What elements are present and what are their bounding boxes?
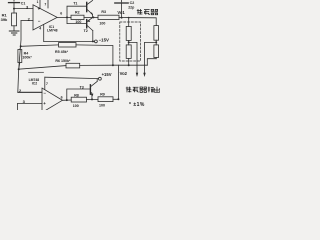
- wire Vo2 drop to output stage: [118, 65, 120, 99]
- node bridge left bottom: [128, 64, 130, 66]
- bridge arm right lower element: [154, 45, 159, 59]
- svg-text:100: 100: [75, 20, 81, 24]
- 输: [148, 87, 154, 93]
- svg-text:R9: R9: [100, 93, 105, 97]
- 感: [144, 10, 150, 15]
- pin 7 stub IC2: [44, 77, 46, 89]
- wire riser to T2 base: [67, 17, 86, 23]
- bridge arm left upper element: [126, 18, 131, 41]
- svg-text:T3: T3: [80, 86, 84, 90]
- wire pin2 IC2: [18, 91, 42, 93]
- 器: [140, 87, 147, 92]
- wire -15V rail: [44, 40, 95, 42]
- svg-text:R5 45k*: R5 45k*: [55, 50, 69, 54]
- svg-text:+15V: +15V: [102, 72, 112, 77]
- wire right arm bottom return: [147, 59, 156, 65]
- transistor T2: [87, 18, 93, 42]
- sensor output tap left: [129, 42, 137, 73]
- node X junction: [20, 45, 22, 47]
- svg-text:7: 7: [46, 82, 48, 86]
- arrow right output: [143, 73, 145, 77]
- capacitor C2: [115, 0, 128, 18]
- label sensor (CJK pseudo-glyphs): [137, 9, 158, 15]
- ground: [9, 31, 19, 35]
- svg-text:C1: C1: [21, 1, 26, 5]
- wire R5 right with drop: [76, 45, 113, 65]
- svg-text:7: 7: [44, 3, 46, 7]
- svg-text:−15V: −15V: [99, 38, 109, 43]
- bridge arm right upper element: [154, 26, 159, 41]
- wire pin3 IC1: [14, 8, 33, 10]
- svg-text:100: 100: [73, 104, 79, 108]
- wire node Y to R6: [19, 66, 66, 70]
- pin 7 stub IC1: [47, 0, 49, 8]
- svg-text:R8: R8: [74, 93, 79, 97]
- svg-text:100: 100: [99, 21, 105, 25]
- pin 1 stub IC1: [39, 0, 41, 8]
- 传: [137, 9, 143, 15]
- terminal -15V: [95, 40, 98, 43]
- label sensor output (CJK pseudo-glyphs): [126, 87, 160, 93]
- 出: [154, 87, 160, 93]
- svg-text:100k*: 100k*: [22, 56, 32, 60]
- bridge arm left mid node: [128, 41, 130, 43]
- node Vo1: [121, 17, 123, 19]
- svg-text:T1: T1: [73, 1, 77, 5]
- node A (IC1 +input junction): [13, 8, 15, 10]
- wire R8 to R9: [87, 98, 99, 100]
- wire R9 to Vo2 riser: [113, 98, 119, 100]
- op-amp IC1: [33, 5, 57, 30]
- wire IC2 output: [62, 99, 71, 101]
- wire riser to T3 base: [67, 89, 90, 100]
- node T3 emitter: [91, 98, 93, 100]
- node Vo2 riser bottom: [117, 98, 119, 100]
- labels: [1, 0, 145, 108]
- resistor R3: [98, 15, 119, 19]
- wire R2 to R3: [84, 16, 98, 18]
- svg-text:* ±1%: * ±1%: [129, 102, 145, 108]
- resistor R1: [12, 9, 17, 31]
- wire Vo1 to sensor: [122, 18, 157, 26]
- junction left bridge arm: [128, 17, 130, 19]
- sensor output tap right: [145, 42, 157, 73]
- op-amp IC2: [42, 88, 62, 113]
- svg-text:T2: T2: [84, 29, 88, 33]
- wire node Y down to IC2 pin2: [18, 69, 42, 92]
- svg-text:C2: C2: [130, 1, 135, 5]
- node R5/R6 to Vo2: [112, 64, 114, 66]
- 传: [126, 87, 132, 93]
- svg-text:+: +: [43, 101, 46, 106]
- svg-text:−: −: [43, 90, 46, 95]
- 器: [151, 9, 158, 14]
- junction T2 collector on -15V rail: [92, 40, 94, 42]
- svg-text:+: +: [38, 6, 41, 11]
- resistor R2: [71, 15, 84, 19]
- svg-text:R2: R2: [75, 11, 80, 15]
- wire R3 to Vo1 node: [119, 17, 122, 19]
- transistor T1: [87, 0, 93, 17]
- wire riser to T1 base: [67, 6, 86, 17]
- node T1/T2 emitters: [92, 16, 94, 18]
- wire R6 right: [80, 64, 113, 66]
- svg-text:LM748: LM748: [47, 28, 58, 32]
- junction T3 base riser: [66, 99, 68, 101]
- svg-text:100: 100: [99, 103, 105, 107]
- resistor R9: [98, 97, 113, 102]
- wire R5 left: [21, 45, 59, 46]
- transistor T3: [90, 79, 97, 99]
- resistor R6: [66, 63, 80, 68]
- wire IC1 output: [57, 16, 71, 18]
- wire pin2 IC1: [21, 20, 33, 22]
- svg-text:4: 4: [39, 27, 41, 31]
- svg-text:Vo1: Vo1: [117, 10, 125, 15]
- svg-text:6: 6: [61, 96, 63, 100]
- mystery comp line IC2: [29, 71, 44, 73]
- bridge arm left lower element: [126, 45, 131, 65]
- capacitor C1: [9, 0, 20, 9]
- svg-text:−: −: [38, 18, 41, 23]
- pin 4 stub IC1: [43, 25, 45, 42]
- svg-text:R6 150k*: R6 150k*: [55, 59, 71, 63]
- resistor R8: [71, 97, 86, 102]
- arrow left output: [136, 73, 138, 77]
- wire pin3 IC2: [18, 103, 43, 110]
- terminal +15V: [99, 77, 102, 80]
- junction base riser: [66, 16, 68, 18]
- 感: [133, 87, 139, 92]
- resistor R5: [59, 43, 77, 47]
- wire node X vertical: [19, 21, 21, 70]
- node Y junction (R4 bottom): [18, 68, 20, 70]
- wire +15V rail: [45, 77, 99, 78]
- svg-text:22p: 22p: [128, 6, 135, 10]
- svg-text:Vo2: Vo2: [120, 71, 128, 76]
- svg-text:R3: R3: [101, 10, 106, 14]
- sensor dashed box: [120, 22, 141, 61]
- svg-text:6: 6: [60, 12, 62, 16]
- bridge arm right mid node: [155, 41, 157, 43]
- svg-text:39k: 39k: [1, 17, 8, 22]
- svg-text:IC2: IC2: [32, 81, 37, 85]
- wire Vo2 net: [113, 64, 147, 66]
- svg-text:1: 1: [37, 0, 39, 4]
- resistor R4: [18, 46, 22, 69]
